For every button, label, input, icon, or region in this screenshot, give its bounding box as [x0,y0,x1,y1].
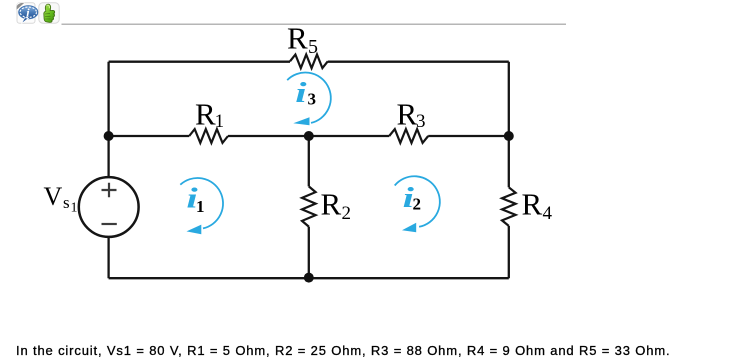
svg-text:R: R [195,97,216,132]
junction node dot MR [504,131,514,141]
wire: top horizontal (TL to TR) [109,61,509,63]
caption text [16,343,670,358]
wire: middle vertical (MM to BM) [308,136,310,278]
mesh current loop i3 [287,73,331,126]
resistor R1 [189,129,228,143]
wire: right vertical (TR to BR) [508,62,510,279]
svg-text:1: 1 [196,197,205,216]
wire: left vertical with source gap [107,62,109,279]
svg-text:R: R [321,187,342,222]
svg-text:i: i [295,76,307,108]
svg-text:R: R [397,97,418,132]
svg-text:3: 3 [416,111,426,132]
svg-text:1: 1 [71,201,78,216]
wire: middle horizontal (ML - MM - MR) [109,135,509,137]
minus sign of source [102,223,117,225]
svg-text:3: 3 [308,89,317,108]
junction node dot ML [104,131,114,141]
resistor R4 [502,187,516,226]
resistor R3 [389,129,428,143]
junction node dot BM [304,273,314,283]
plus sign of source [102,183,117,197]
svg-text:R: R [287,21,308,56]
label R4 [522,187,553,225]
wire: bottom horizontal (BL to BR) [109,277,509,279]
info icon button [17,3,38,24]
label R2 [321,187,352,225]
voltage source Vs1 circle [79,177,139,237]
mesh current loop i2 [395,176,440,232]
label Vs1 [44,182,78,216]
toolbar separator line [62,23,567,25]
svg-text:1: 1 [215,111,225,132]
like (thumbs-up) icon button [39,3,59,23]
svg-text:2: 2 [413,195,422,214]
label R5 [287,21,318,58]
svg-text:V: V [44,182,63,211]
label R3 [397,97,426,132]
svg-text:s: s [63,193,70,212]
svg-text:5: 5 [308,36,318,58]
svg-text:4: 4 [543,203,553,224]
resistor R5 [290,55,328,69]
svg-text:R: R [522,187,543,222]
svg-text:2: 2 [342,203,352,224]
resistor R2 [302,186,316,226]
mesh current loop i1 [180,178,223,234]
junction node dot MM [304,131,314,141]
label R1 [195,97,224,132]
